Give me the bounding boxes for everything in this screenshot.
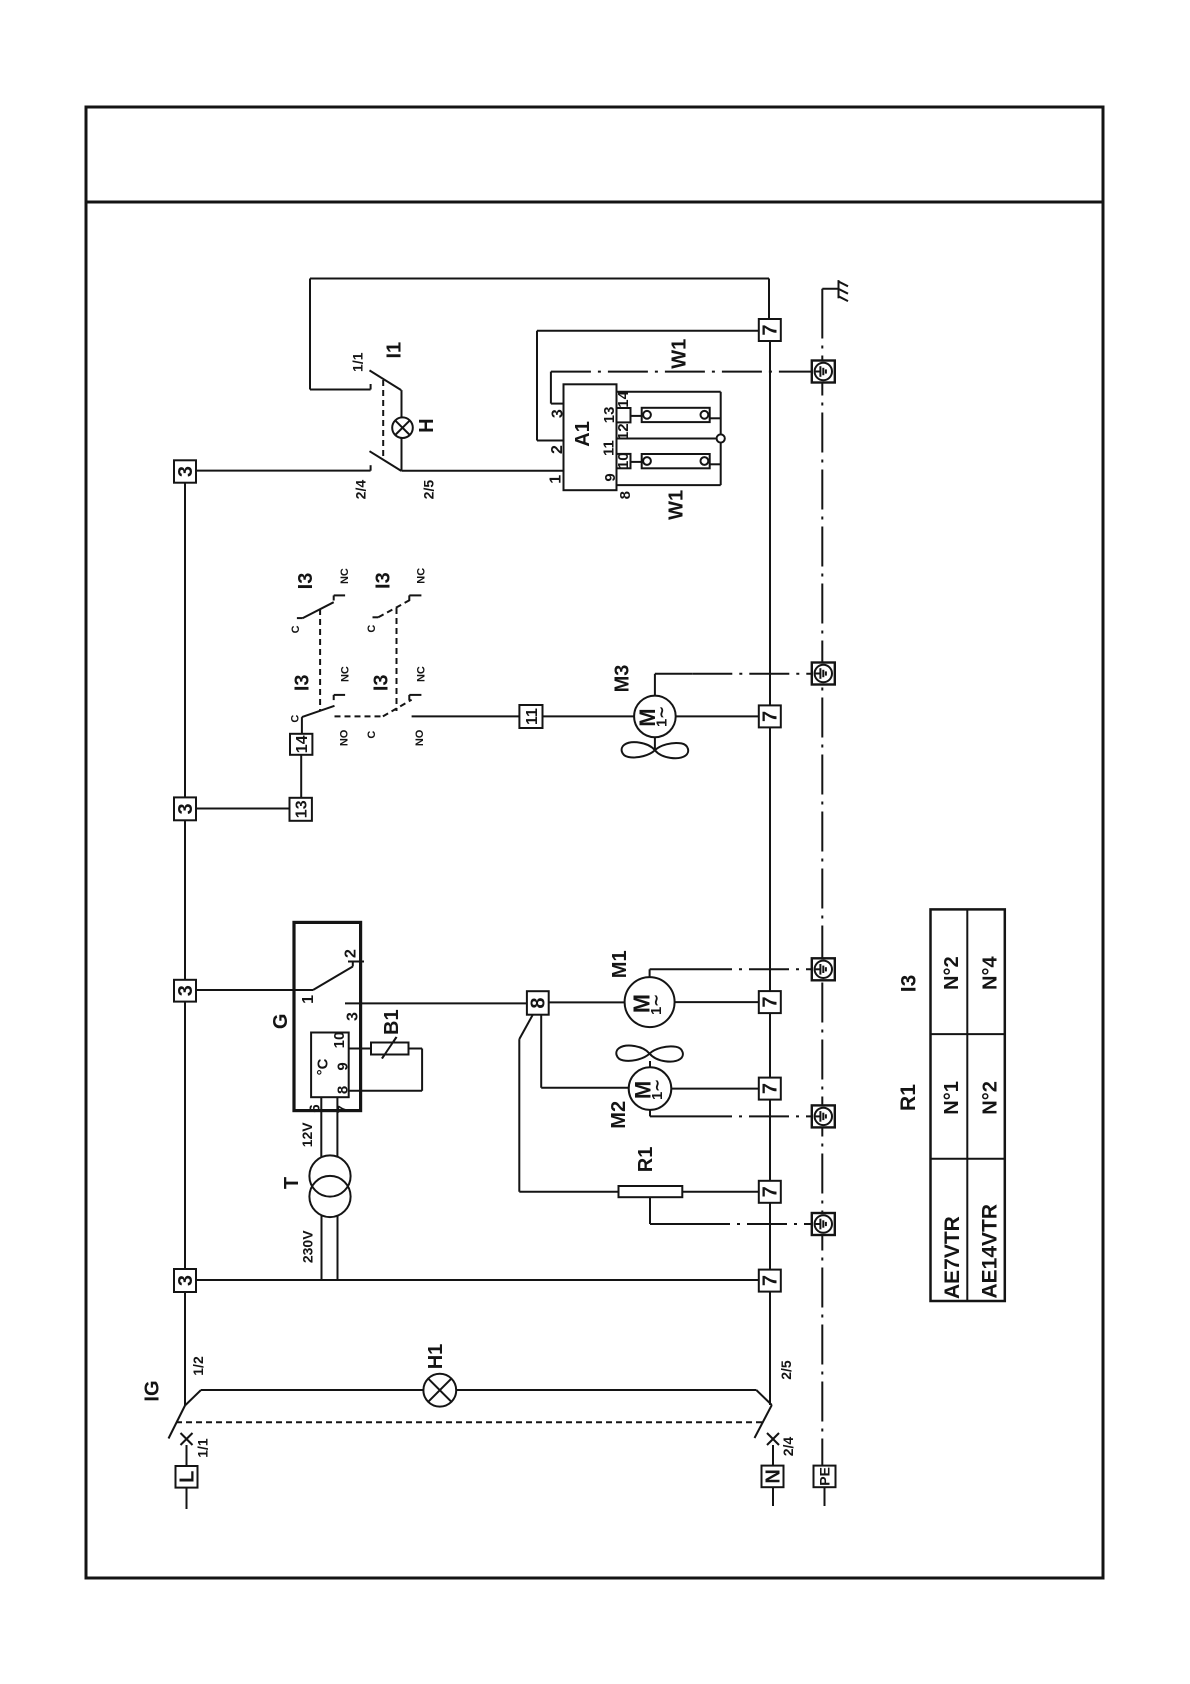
svg-text:C: C: [289, 715, 301, 723]
svg-text:I3: I3: [373, 572, 395, 589]
svg-text:1∼: 1∼: [648, 994, 665, 1015]
svg-text:12V: 12V: [299, 1122, 315, 1148]
svg-text:°C: °C: [315, 1058, 332, 1075]
svg-text:NC: NC: [339, 568, 351, 584]
svg-text:8: 8: [617, 491, 634, 499]
svg-text:7: 7: [334, 1105, 351, 1113]
svg-text:14: 14: [294, 735, 311, 753]
svg-text:1/2: 1/2: [190, 1356, 206, 1376]
svg-text:6: 6: [306, 1104, 323, 1112]
svg-text:1∼: 1∼: [649, 1079, 666, 1100]
svg-text:L: L: [176, 1471, 198, 1483]
svg-text:11: 11: [524, 708, 541, 725]
svg-text:3: 3: [175, 1275, 197, 1286]
svg-text:N°2: N°2: [980, 1081, 1002, 1115]
svg-text:3: 3: [175, 803, 197, 814]
svg-text:NC: NC: [416, 666, 428, 682]
svg-text:2/4: 2/4: [780, 1437, 796, 1457]
svg-text:PE: PE: [817, 1467, 833, 1486]
svg-text:8: 8: [528, 997, 550, 1008]
svg-text:M3: M3: [611, 665, 633, 693]
svg-text:10: 10: [331, 1032, 348, 1049]
svg-text:3: 3: [175, 985, 197, 996]
svg-text:2/4: 2/4: [353, 480, 369, 500]
svg-text:NC: NC: [415, 568, 427, 584]
svg-text:12: 12: [615, 423, 632, 440]
svg-text:230V: 230V: [300, 1230, 316, 1263]
svg-text:1∼: 1∼: [653, 706, 670, 727]
svg-text:9: 9: [602, 473, 619, 481]
svg-text:1/1: 1/1: [349, 352, 365, 372]
svg-text:10: 10: [615, 452, 632, 469]
svg-text:7: 7: [760, 1186, 782, 1197]
svg-text:13: 13: [601, 407, 618, 424]
svg-text:T: T: [281, 1177, 303, 1189]
svg-text:M2: M2: [608, 1101, 630, 1129]
svg-text:M1: M1: [609, 950, 631, 978]
svg-text:I3: I3: [291, 674, 313, 691]
svg-text:H1: H1: [425, 1344, 447, 1370]
svg-text:I1: I1: [384, 342, 406, 359]
svg-text:H: H: [416, 418, 438, 432]
svg-text:I3: I3: [295, 573, 317, 590]
svg-text:1: 1: [300, 995, 317, 1004]
svg-text:C: C: [290, 625, 302, 633]
svg-text:A1: A1: [572, 421, 594, 447]
svg-text:NO: NO: [414, 729, 426, 746]
svg-text:AE7VTR: AE7VTR: [941, 1216, 964, 1299]
svg-text:3: 3: [345, 1012, 362, 1021]
svg-text:8: 8: [334, 1086, 351, 1094]
svg-text:7: 7: [760, 324, 782, 335]
svg-text:W1: W1: [668, 339, 690, 369]
svg-text:1/1: 1/1: [195, 1438, 211, 1458]
svg-text:1: 1: [548, 475, 565, 484]
svg-text:G: G: [270, 1014, 292, 1030]
svg-text:N°2: N°2: [941, 956, 963, 990]
svg-text:7: 7: [760, 1083, 782, 1094]
svg-text:R1: R1: [897, 1084, 920, 1111]
svg-text:IG: IG: [142, 1380, 164, 1401]
svg-text:N°4: N°4: [980, 956, 1002, 990]
svg-text:C: C: [366, 731, 378, 739]
svg-text:C: C: [366, 625, 378, 633]
svg-text:2/5: 2/5: [421, 480, 437, 500]
svg-text:14: 14: [615, 390, 632, 407]
svg-text:AE14VTR: AE14VTR: [978, 1204, 1001, 1299]
svg-text:3: 3: [550, 409, 567, 418]
svg-text:2/5: 2/5: [778, 1360, 794, 1380]
svg-text:NO: NO: [339, 729, 351, 746]
svg-text:NC: NC: [339, 666, 351, 682]
svg-text:W1: W1: [666, 490, 688, 520]
svg-text:9: 9: [334, 1062, 351, 1070]
svg-text:3: 3: [175, 466, 197, 477]
svg-text:7: 7: [760, 1275, 782, 1286]
svg-text:2: 2: [342, 949, 359, 958]
svg-text:7: 7: [760, 711, 782, 722]
svg-text:B1: B1: [381, 1009, 403, 1035]
svg-text:7: 7: [760, 997, 782, 1008]
svg-text:13: 13: [294, 800, 311, 818]
svg-text:R1: R1: [635, 1147, 657, 1173]
svg-text:I3: I3: [370, 674, 392, 691]
svg-text:I3: I3: [898, 975, 921, 993]
svg-text:N°1: N°1: [941, 1081, 963, 1115]
svg-text:N: N: [762, 1469, 784, 1483]
svg-text:2: 2: [549, 445, 566, 454]
